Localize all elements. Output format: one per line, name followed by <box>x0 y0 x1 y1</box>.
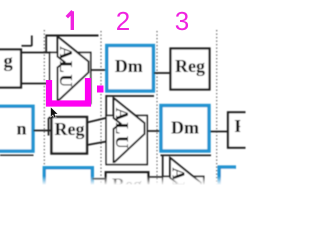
svg-text:g: g <box>4 52 14 72</box>
wire bend row 2 (horizontal) <box>49 117 53 119</box>
register file Reg2 (row 2) <box>52 117 88 154</box>
stage boundary dotted line 2 <box>100 31 102 206</box>
svg-text:Reg: Reg <box>55 119 85 139</box>
black under-edge of data memory Dm1 <box>106 95 155 97</box>
instruction memory Im2 (row 2, cut at left edge, cyan highlighted) <box>0 106 33 151</box>
wire Im2 to Reg2 <box>34 130 52 132</box>
wire ALU U1 output to Dm1 <box>91 69 106 71</box>
wire bend row 0 (horizontal) <box>22 45 32 47</box>
annotation number 1 <box>67 11 73 30</box>
wire Reg2 upper output <box>87 117 112 123</box>
wire bend row 2 (vertical) <box>48 118 50 136</box>
op symbol ALU U3 (cut by fade) <box>170 158 201 222</box>
svg-text:ALU: ALU <box>112 108 132 151</box>
svg-text:Reg: Reg <box>175 56 205 76</box>
data memory Dm2 (cyan highlighted) <box>161 106 209 152</box>
wire Reg1a upper output <box>21 52 51 54</box>
instruction memory Im3 (row 3, cyan highlighted) <box>44 168 92 213</box>
svg-text:3: 3 <box>175 6 189 36</box>
wire Dm1 down to ALU stage box of row 2 <box>105 95 107 116</box>
ALU stage box row 2 <box>106 116 147 165</box>
svg-text:2: 2 <box>116 6 130 36</box>
wire Im3 to Reg3 <box>92 178 106 180</box>
register file Reg1a (row 1, cut at left edge) <box>0 50 21 88</box>
magenta U-bracket highlight around ALU U1 bottom <box>49 78 88 104</box>
register file Reg1b (row 1 writeback) <box>171 49 210 90</box>
wire ALU U2 output to Dm2 <box>147 130 161 132</box>
wire Reg1a lower output <box>21 83 51 85</box>
wire Dm2 to Reg2b <box>211 131 229 133</box>
ALU stage box row 3 <box>163 177 204 226</box>
register file Reg3 (row 3) <box>106 172 149 209</box>
ALU stage box row 1 <box>50 53 91 104</box>
wire Reg2 lower output <box>87 141 112 146</box>
bottom edge of data memory Dm0 (row 0, cut by image top) <box>46 35 99 37</box>
data memory Dm3 (row 3, cyan highlighted, cut at diagram right edge) <box>219 167 236 186</box>
op symbol ALU U2 <box>114 98 145 162</box>
stage boundary dotted line 4 <box>216 30 218 206</box>
wire Dm0 down to ALU stage box of row 1 <box>45 36 47 54</box>
magenta square marker <box>97 86 104 93</box>
svg-text:Dm: Dm <box>171 118 199 138</box>
black under-edge of data memory Dm2 <box>161 154 212 156</box>
wire Dm2 down to ALU stage box of row 3 <box>162 155 164 177</box>
black under-edge of Im2 <box>0 154 34 156</box>
op symbol ALU U1 <box>58 37 89 101</box>
mouse cursor <box>51 107 58 117</box>
fade of diagram to white at bottom <box>0 176 268 185</box>
register file Reg2b (row 2 writeback, cut at diagram edge) <box>228 112 246 147</box>
wire Reg3 output to ALU stage box row 3 <box>148 176 163 178</box>
data memory Dm1 (cyan highlighted) <box>107 46 154 92</box>
wire bend row 0 (vertical) <box>31 36 33 47</box>
label R of Reg2b (partial, clipped) <box>235 116 249 136</box>
svg-text:n: n <box>17 119 27 139</box>
stage boundary dotted line 1 <box>43 30 45 206</box>
svg-text:ALU: ALU <box>56 46 76 89</box>
svg-text:Dm: Dm <box>115 56 143 76</box>
stage boundary dotted line 3 <box>156 31 158 206</box>
wire Dm1 to Reg1b <box>154 72 171 74</box>
